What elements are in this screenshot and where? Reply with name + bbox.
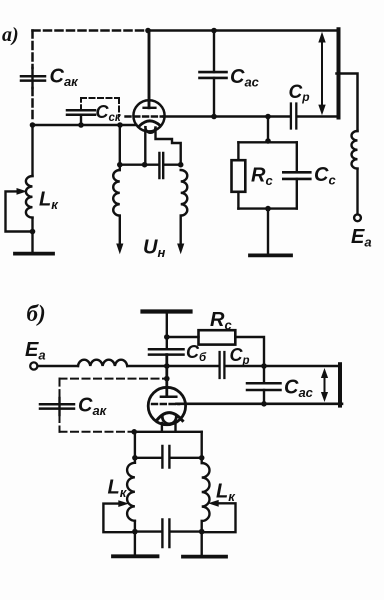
svg-text:Еа: Еа <box>351 226 372 250</box>
tube cathode cup b <box>162 416 176 424</box>
wire right rail lower b <box>200 521 202 555</box>
node Cas bottom <box>211 114 217 120</box>
inductor Lk left b <box>127 463 135 521</box>
inductor Lk right b <box>202 463 210 521</box>
wire left rail lower b <box>134 521 136 555</box>
node RC loop bottom <box>265 206 271 212</box>
arrow Un left <box>119 216 121 246</box>
capacitor Cc <box>283 172 310 179</box>
label Cak <box>50 66 80 90</box>
node Cas top b <box>261 363 267 369</box>
node RC loop top <box>265 138 271 144</box>
arrow double b <box>321 368 328 402</box>
wire left dashed vertical <box>31 31 34 69</box>
wire RC loop top <box>238 141 296 143</box>
wire tap loop left b <box>103 504 134 533</box>
terminal Ea <box>354 214 361 221</box>
label Cp <box>289 82 310 104</box>
label Un <box>143 237 165 261</box>
wire left rail upper b <box>134 432 136 463</box>
label Lk left b <box>108 477 128 501</box>
node grid RC junction <box>265 114 271 120</box>
node tank right bottom b <box>199 529 205 535</box>
wire RC loop bottom <box>238 207 296 209</box>
wire Rc right lead b <box>235 337 264 383</box>
arrow tank voltage double arrow <box>318 32 325 116</box>
ground left b <box>113 554 158 558</box>
resistor Rc <box>232 160 246 192</box>
svg-text:Lк: Lк <box>216 481 236 505</box>
tube grid dashes b <box>152 403 179 405</box>
svg-text:Сск: Сск <box>96 102 122 124</box>
wire top solid anode line <box>148 29 339 32</box>
node tank left bottom b <box>132 529 138 535</box>
capacitor Cas <box>200 72 227 78</box>
wire cathode line b <box>135 431 202 433</box>
node Cak bottom junction b <box>131 429 137 435</box>
wire grid line b <box>177 402 343 405</box>
capacitor tank bottom b <box>162 520 169 548</box>
wire filament right staircase <box>156 132 181 165</box>
capacitor Cp <box>291 104 296 129</box>
capacitor Cp b <box>220 352 225 378</box>
svg-text:Сас: Сас <box>230 66 260 90</box>
wire filament left lead <box>144 131 146 165</box>
arrow tap <box>17 188 28 195</box>
wire Cc leads <box>296 142 298 208</box>
ground right b <box>183 555 226 559</box>
label Rc b <box>210 309 232 333</box>
inductor anode choke b <box>78 360 127 366</box>
wire anode vertical lower <box>165 355 168 397</box>
terminal Ea b <box>30 362 37 369</box>
wire Cas bottom lead b <box>263 390 265 404</box>
capacitor Cas leads <box>213 31 215 117</box>
label Cc <box>314 164 336 188</box>
label Ea b <box>25 339 46 363</box>
label a) <box>2 24 19 46</box>
capacitor Cb <box>149 349 184 354</box>
wire coil to ground <box>31 218 33 252</box>
wire right rail upper b <box>200 432 202 463</box>
svg-text:б): б) <box>27 301 46 326</box>
label Lk right b <box>216 481 236 505</box>
node left wire junction <box>30 122 36 128</box>
wire Csk dashed leads <box>81 98 119 116</box>
arrow tap left b <box>118 500 129 507</box>
wire right rail b <box>338 364 342 405</box>
svg-text:Rс: Rс <box>210 309 232 333</box>
node Rc junction b <box>164 334 170 340</box>
label Ea <box>351 226 372 250</box>
svg-text:Сак: Сак <box>78 395 108 419</box>
node filament mid <box>142 162 148 168</box>
svg-text:Еа: Еа <box>25 339 46 363</box>
node filament right <box>178 162 184 168</box>
wire Cak dashed vertical b <box>59 379 61 398</box>
label Cas <box>230 66 260 90</box>
tube grid dashes <box>126 115 164 117</box>
wire tap loop right b <box>202 503 236 532</box>
wire Cp to rail b <box>226 365 338 367</box>
wire tank top link b <box>135 457 202 459</box>
node tank left top b <box>132 455 138 461</box>
wire Ea to choke <box>38 365 78 367</box>
svg-text:Rс: Rс <box>251 165 273 189</box>
node tank right top b <box>199 455 205 461</box>
svg-text:Uн: Uн <box>143 237 165 261</box>
inductor anode choke <box>352 131 358 169</box>
capacitor filament bypass <box>159 153 163 178</box>
wire neck right b <box>174 423 176 432</box>
resistor Rc b <box>199 330 236 344</box>
wire neck left b <box>161 423 163 432</box>
capacitor Cas b <box>247 383 281 390</box>
label Lk <box>39 189 59 213</box>
tube cathode dome b <box>157 413 183 421</box>
node Cak top junction b <box>164 376 170 382</box>
wire tank bottom link b <box>135 530 202 532</box>
tube cathode cup <box>145 127 155 133</box>
label Rc <box>251 165 273 189</box>
capacitor Cak b <box>40 404 74 408</box>
arrow tap right b <box>208 500 219 507</box>
wire Rc bottom lead <box>237 192 239 209</box>
inductor heater choke right <box>181 170 188 216</box>
inductor heater choke left <box>113 170 120 216</box>
wire to ground mid <box>267 209 269 254</box>
node tank left junction <box>117 122 123 128</box>
node tap bottom <box>30 229 36 235</box>
inductor Lk <box>26 176 33 218</box>
tube U1 envelope <box>133 100 164 131</box>
label Cb <box>186 342 207 364</box>
wire Cp to rail <box>298 115 337 118</box>
capacitor Csk <box>67 110 95 115</box>
node Cas bottom b <box>261 401 267 407</box>
capacitor tank top b <box>162 446 169 468</box>
wire left heater riser <box>119 125 121 170</box>
svg-text:а): а) <box>2 24 19 46</box>
arrow Un right <box>179 216 181 246</box>
chassis bar top <box>143 309 191 313</box>
wire grid to right <box>164 115 290 118</box>
label Cak b <box>78 395 108 419</box>
wire branch to choke <box>337 74 358 132</box>
wire Csk lead down <box>80 115 82 125</box>
tube anode bar b <box>161 396 176 399</box>
node Csk bottom junction <box>78 122 84 128</box>
wire anode vertical upper <box>166 312 168 350</box>
svg-text:Ср: Ср <box>230 345 250 367</box>
wire tap loop <box>6 191 33 231</box>
wire Cak dashed bottom b <box>60 431 132 433</box>
wire Rc left lead b <box>167 336 199 338</box>
svg-text:Сас: Сас <box>284 377 314 401</box>
node Cac top junction <box>211 28 217 34</box>
tube U2 envelope <box>148 387 185 424</box>
wire Rc top lead <box>237 142 239 160</box>
ground left <box>15 252 53 256</box>
svg-text:Lк: Lк <box>39 189 59 213</box>
wire Cak dashed top b <box>60 378 165 380</box>
label b) <box>27 301 46 326</box>
wire top dashed (anode-cathode feedback path) <box>33 29 149 32</box>
wire choke to Cp <box>127 365 219 367</box>
wire choke to terminal <box>356 169 358 215</box>
node anode feed junction <box>164 363 170 369</box>
ground mid <box>250 253 291 257</box>
label Csk <box>96 102 122 124</box>
svg-text:Сак: Сак <box>50 66 80 90</box>
label Cp b <box>230 345 250 367</box>
label Cas b <box>284 377 314 401</box>
tube anode bar <box>144 107 156 109</box>
wire left tank vertical <box>31 125 33 176</box>
node top-anode junction <box>145 28 151 34</box>
wire filament bypass line <box>120 163 181 165</box>
wire right rail <box>337 29 341 117</box>
node filament left <box>117 162 123 168</box>
svg-text:Ср: Ср <box>289 82 310 104</box>
wire grid-side left horizontal <box>33 124 137 127</box>
wire anode lead <box>148 31 151 108</box>
svg-text:Сс: Сс <box>314 164 336 188</box>
wire down to RC loop <box>267 117 269 143</box>
capacitor Cak <box>21 76 45 80</box>
tube cathode dome <box>140 121 161 126</box>
svg-text:Lк: Lк <box>108 477 128 501</box>
